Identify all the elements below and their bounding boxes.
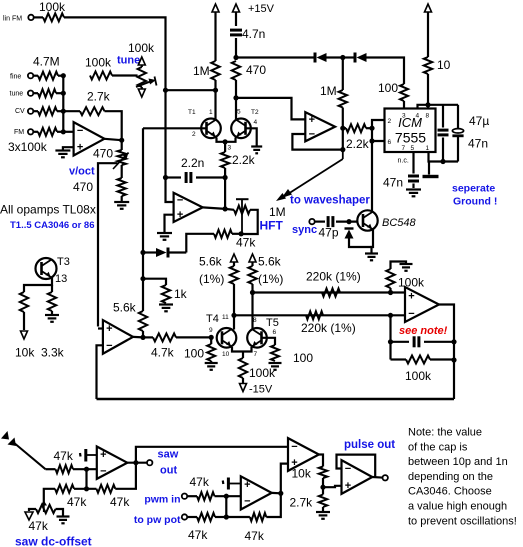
wire 47k row right — [232, 233, 241, 235]
resistor 2.2k emitter — [221, 152, 229, 168]
wire U7 output — [127, 462, 147, 464]
wire U10 feedback bracket — [337, 455, 376, 478]
wire left rail — [142, 128, 144, 311]
svg-text:10k: 10k — [15, 346, 35, 360]
wire pot wiper tap — [98, 163, 118, 326]
svg-text:100k: 100k — [249, 366, 276, 380]
svg-text:FM: FM — [14, 129, 24, 136]
terminal sync — [309, 219, 314, 224]
wire 47k row left — [186, 234, 214, 253]
wire U3 output to 2.2k — [343, 127, 346, 129]
wire pot right lead — [56, 509, 64, 516]
wire pwm in — [187, 495, 197, 497]
node U5 - input — [388, 313, 393, 318]
wire pot to lower 470 — [121, 165, 123, 178]
wire 1M to node — [214, 80, 216, 90]
op-amp U9 pulse comparator — [288, 438, 319, 471]
ground at BC548 emitter — [365, 254, 378, 261]
arrow -15 dc pot — [25, 512, 33, 520]
node summing junction FM — [61, 129, 66, 134]
terminal saw out — [147, 460, 152, 465]
svg-text:+: + — [100, 449, 106, 461]
wire 47n bypass bottom — [442, 138, 444, 162]
resistor 100k to tune pot — [90, 72, 112, 80]
terminal pw pot — [182, 514, 187, 519]
capacitor 4.7n — [230, 30, 242, 35]
wire node down to BC548 collector — [371, 141, 373, 211]
node U4 output — [140, 335, 145, 340]
svg-text:4: 4 — [254, 119, 258, 126]
svg-text:All opamps TL08x: All opamps TL08x — [0, 203, 96, 217]
resistor 220k 1% row1 — [322, 289, 340, 297]
svg-text:100k: 100k — [405, 369, 432, 383]
svg-text:v/oct: v/oct — [69, 166, 95, 178]
wire 4.7n to node — [235, 38, 237, 58]
svg-text:100k: 100k — [85, 56, 112, 70]
wire diode row segment 2 — [327, 56, 343, 58]
svg-text:−: − — [100, 465, 106, 477]
node pin 6 junction — [369, 138, 374, 143]
svg-text:+: + — [77, 142, 83, 154]
transistor T2 — [231, 119, 251, 139]
transistor T5 — [247, 328, 267, 348]
svg-text:8: 8 — [426, 113, 430, 120]
wire diode row segment 1 — [236, 56, 315, 58]
svg-text:+: + — [177, 209, 183, 221]
resistor 2.7k feedback — [80, 107, 105, 115]
pot wiper arrow dc-offset — [41, 501, 48, 513]
svg-text:100k: 100k — [398, 276, 425, 290]
svg-text:4.7n: 4.7n — [242, 27, 265, 41]
svg-text:2.2n: 2.2n — [181, 156, 204, 170]
wire 220k row2 — [234, 314, 405, 316]
resistor 5.6k 1% left — [230, 266, 238, 284]
node diode row left — [233, 55, 238, 60]
wire U5 output — [439, 305, 454, 400]
node divider — [320, 485, 325, 490]
wire tune to rail — [56, 92, 63, 94]
node waveshaper tap — [340, 147, 345, 152]
resistor 47k saw input — [56, 465, 74, 473]
node summing junction tune — [61, 91, 66, 96]
svg-text:1M: 1M — [320, 84, 337, 98]
svg-text:BC548: BC548 — [382, 217, 417, 229]
ground dc pot — [57, 517, 70, 524]
resistor 1M collector T1 — [211, 61, 219, 80]
svg-text:fine: fine — [10, 74, 21, 81]
wire T2 base to ground — [246, 128, 257, 145]
wire 4.7k to T4 base node — [176, 336, 211, 338]
resistor 47k saw feedback left — [55, 485, 74, 493]
svg-text:-15V: -15V — [249, 384, 273, 396]
wire U8 output — [272, 492, 281, 495]
svg-text:+: + — [408, 290, 414, 302]
arrow +15 rail B — [233, 4, 240, 12]
svg-text:4: 4 — [416, 113, 420, 120]
svg-text:47n: 47n — [383, 176, 403, 190]
wire 5.6k left to T4 collector — [233, 284, 235, 330]
svg-text:4.7M: 4.7M — [33, 55, 60, 69]
ground below divider — [316, 512, 330, 519]
svg-text:CA3046. Choose: CA3046. Choose — [408, 486, 492, 498]
ground below 1k — [159, 305, 173, 312]
wire U4 + input — [98, 327, 103, 329]
resistor R 100k lin FM — [43, 13, 64, 21]
svg-text:see note!: see note! — [399, 325, 448, 337]
svg-text:47k: 47k — [245, 529, 265, 543]
svg-text:T1: T1 — [188, 109, 196, 116]
svg-text:47k: 47k — [110, 495, 130, 509]
resistor 100k emitters — [239, 358, 247, 378]
svg-text:47k: 47k — [54, 449, 74, 463]
op-amp U3 buffer — [305, 112, 335, 141]
wire pin 1 down — [427, 152, 430, 162]
wire U8 output to comparator + — [281, 464, 288, 494]
ground below 100 T4 — [205, 363, 218, 370]
node 3 shared emitters — [223, 139, 228, 144]
node U5 + input — [388, 290, 393, 295]
wire arrow to 1M — [214, 12, 216, 61]
wire pin 5 down — [412, 152, 414, 174]
capacitor 2.2n — [186, 172, 191, 183]
svg-text:47µ: 47µ — [469, 114, 489, 128]
wire BC548 emitter to ground — [372, 230, 374, 253]
wire node to 1M bottom — [166, 89, 216, 91]
wire 47n pin5 to ground — [412, 184, 414, 189]
arrow +15 tune pot top — [138, 57, 145, 65]
resistor 100k FM input — [38, 128, 57, 136]
node T5 collector — [250, 290, 255, 295]
resistor 3.3k — [48, 292, 56, 311]
svg-text:8: 8 — [253, 317, 257, 324]
svg-text:1: 1 — [209, 109, 213, 116]
svg-text:6: 6 — [388, 139, 392, 146]
wire 47k to saw - node — [73, 468, 97, 470]
wire 2.7k to ground — [322, 507, 324, 511]
node between diodes / 1M top — [340, 55, 345, 60]
arrow top 5.6k right — [249, 254, 256, 262]
node 2.2n left — [163, 175, 168, 180]
svg-text:10k: 10k — [292, 467, 312, 481]
svg-text:5.6k: 5.6k — [113, 301, 137, 315]
node U3 output — [340, 126, 345, 131]
resistor 100 to pin 3 — [400, 84, 408, 101]
svg-text:470: 470 — [246, 63, 266, 77]
wire U4 output node — [133, 336, 143, 339]
svg-text:100: 100 — [184, 347, 204, 361]
svg-text:5.6k: 5.6k — [258, 255, 282, 269]
resistor 100k tune input — [38, 89, 56, 97]
node feedback cap right — [451, 339, 456, 344]
capacitor 47u electrolytic — [452, 129, 463, 136]
transistor T1 — [201, 119, 221, 139]
resistor 470 collector T2 — [232, 61, 240, 80]
wire summing rail — [62, 76, 64, 132]
svg-text:3.3k: 3.3k — [41, 346, 65, 360]
node summing junction fine — [61, 73, 66, 78]
svg-text:6: 6 — [273, 329, 277, 336]
wire T1 base — [143, 127, 207, 129]
terminal pwm in — [182, 494, 187, 499]
pot wiper arrow tune — [136, 77, 157, 88]
svg-text:10: 10 — [437, 58, 451, 72]
ground below 100 T5 — [269, 363, 282, 370]
IC U6 ICM 7555 body — [385, 109, 436, 153]
node T2 collector — [233, 95, 238, 100]
svg-text:out: out — [160, 465, 177, 477]
svg-text:Note: the value: Note: the value — [408, 427, 482, 439]
svg-text:5.6k: 5.6k — [199, 255, 223, 269]
wire 5.6k to comparator output — [142, 331, 144, 337]
wire T1 emitter to node 3 — [217, 138, 226, 142]
wire T5 base — [262, 338, 276, 345]
arrow +15 rail A — [212, 4, 219, 12]
wire tune — [33, 92, 38, 94]
node 2.2n right — [223, 175, 228, 180]
svg-text:of the cap is: of the cap is — [408, 441, 468, 453]
wire pwm fb to output — [266, 493, 281, 517]
wire node to pin 6 — [372, 128, 385, 141]
svg-text:+15V: +15V — [248, 3, 275, 15]
svg-text:lin FM: lin FM — [3, 16, 22, 23]
ground at 100k pullup — [400, 264, 413, 271]
resistor 100 T5 base — [271, 345, 279, 361]
svg-text:CV: CV — [15, 108, 25, 115]
op-amp U1 v/oct summer — [74, 122, 105, 155]
wire arrow to 5.6k left — [233, 262, 235, 266]
wire pw pot — [187, 516, 197, 518]
wire to separate ground bar — [428, 162, 430, 175]
wire emitters to 100k — [242, 352, 244, 359]
wire FM to rail — [57, 131, 63, 133]
ground at U1 + input — [55, 151, 70, 158]
svg-text:4.7k: 4.7k — [151, 346, 175, 360]
wire 2.2n left segment — [166, 176, 182, 178]
wire CV to rail — [57, 110, 63, 112]
svg-text:between 10p and 1n: between 10p and 1n — [408, 456, 508, 468]
wire node to HFT pot — [225, 208, 234, 211]
op-amp U4 comparator — [103, 320, 133, 354]
svg-text:1M: 1M — [193, 64, 210, 78]
svg-text:tune: tune — [10, 91, 24, 98]
wire clamp diode down — [349, 239, 372, 248]
resistor 10k — [20, 292, 28, 312]
wire fb row mid — [74, 488, 96, 490]
svg-text:47k: 47k — [190, 475, 210, 489]
node feedback cap left — [388, 339, 393, 344]
svg-text:13: 13 — [55, 273, 67, 285]
wire U9 output to divider — [319, 455, 323, 467]
node 1M bottom / T1 collector — [213, 88, 218, 93]
wire divider to U10 + — [323, 486, 342, 487]
svg-text:47k: 47k — [236, 236, 256, 250]
wire sync to cap — [315, 221, 325, 223]
wire 10 to pin8 node — [427, 74, 429, 105]
capacitor comp saw + — [80, 449, 97, 462]
svg-text:100: 100 — [378, 81, 398, 95]
svg-text:1k: 1k — [174, 287, 188, 301]
op-amp U7 saw buffer — [97, 447, 128, 479]
capacitor 47n bypass — [438, 130, 449, 135]
op-amp U5 schmitt — [405, 287, 439, 322]
wire output node to pot — [121, 140, 123, 150]
resistor 5.6k 1% right — [248, 266, 256, 284]
wire 2.2k to pin node — [366, 127, 372, 129]
wire fine — [33, 75, 38, 77]
transistor T4 — [217, 328, 237, 348]
node T4 base — [209, 335, 214, 340]
wire HFT pot right side loop — [241, 210, 258, 234]
wire FM — [33, 131, 38, 133]
resistor 470 lower — [118, 178, 126, 196]
svg-text:2.2k: 2.2k — [232, 153, 256, 167]
svg-text:470: 470 — [73, 180, 93, 194]
transistor T3 — [36, 258, 57, 279]
ground at T2 base — [251, 147, 262, 154]
wire T3 emitter — [24, 278, 52, 293]
transistor Q1 BC548 — [357, 210, 377, 230]
svg-text:100k: 100k — [39, 0, 66, 14]
capacitor 47n pin5 — [408, 176, 419, 181]
wire diode row to 100 resistor — [367, 58, 405, 85]
ground below 3.3k — [45, 315, 59, 322]
svg-text:T3: T3 — [57, 256, 70, 268]
terminal lin FM — [28, 15, 33, 20]
svg-text:−: − — [291, 441, 297, 453]
wire pwm to node — [215, 495, 241, 497]
svg-text:(1%): (1%) — [258, 272, 283, 286]
wire 2.2k to cap node — [224, 168, 226, 178]
wire T3 emitter right leg — [51, 285, 53, 292]
wire arrow to 5.6k right — [251, 262, 253, 266]
arrow +15 rail C — [425, 4, 432, 12]
wire rail to opamp U1 inverting input — [63, 131, 73, 133]
svg-text:3: 3 — [402, 113, 406, 120]
wire 2.7k to output node — [105, 111, 122, 140]
resistor 1M to comparator — [339, 90, 347, 108]
wire saw feedback down — [85, 469, 87, 489]
wire pot left lead — [29, 509, 36, 511]
svg-text:100: 100 — [293, 351, 313, 365]
svg-text:5: 5 — [411, 145, 415, 152]
svg-text:3: 3 — [228, 145, 232, 152]
svg-text:seperate: seperate — [452, 183, 495, 195]
node T4 collector — [231, 313, 236, 318]
op-amp U2 integrator — [174, 193, 203, 222]
resistor 100k feedback — [406, 356, 430, 364]
terminal FM — [28, 129, 33, 134]
svg-text:2.7k: 2.7k — [290, 496, 314, 510]
svg-text:to pw pot: to pw pot — [134, 514, 181, 526]
svg-text:7: 7 — [402, 145, 406, 152]
node summing junction CV — [61, 109, 66, 114]
svg-text:−: − — [244, 496, 250, 508]
resistor 47k pwm in — [197, 492, 215, 500]
svg-text:10: 10 — [222, 351, 230, 358]
resistor 47k saw feedback right — [96, 485, 115, 493]
diode D1 — [315, 53, 327, 63]
wire tune pot bottom — [141, 87, 143, 89]
wire saw bus up — [136, 447, 288, 463]
node BC548 base — [346, 219, 351, 224]
resistor 10 — [424, 57, 432, 74]
diode D2 — [355, 53, 367, 63]
svg-text:220k (1%): 220k (1%) — [301, 321, 356, 335]
diode D3 — [156, 248, 168, 258]
wire U1 output — [104, 139, 121, 140]
svg-text:+: + — [345, 480, 351, 492]
svg-text:7555: 7555 — [395, 130, 426, 146]
node HFT wiper / 47k — [239, 231, 244, 236]
wire CV — [33, 110, 38, 112]
wire T4 emitter join — [232, 347, 243, 352]
svg-text:47k: 47k — [188, 528, 208, 542]
wire feedback cap left seg — [391, 341, 410, 343]
wire divider mid — [322, 478, 324, 495]
wire 5.6k right to T5 collector — [251, 284, 253, 330]
resistor 100 T4 base — [207, 344, 215, 361]
resistor 47k HFT — [214, 230, 232, 238]
wire pin 8 stub — [427, 105, 429, 109]
wire 2.2n right segment — [196, 176, 225, 178]
potentiometer 100k tune — [138, 67, 146, 87]
svg-text:tune: tune — [117, 55, 140, 67]
wire U3 - feedback loop — [292, 128, 342, 149]
wire T2 node to U3 + input — [236, 98, 305, 120]
svg-text:2: 2 — [388, 118, 392, 125]
wire T5 emitter join — [243, 347, 252, 352]
svg-text:pwm in: pwm in — [144, 494, 180, 506]
wire T2 emitter to node 3 — [225, 138, 235, 142]
wire 100k pullup to ground — [391, 262, 407, 270]
svg-text:−: − — [177, 195, 183, 207]
svg-text:47p: 47p — [319, 226, 339, 240]
resistor 4.7M fine — [38, 72, 58, 80]
wire node to T1 collector — [214, 90, 216, 119]
svg-text:7: 7 — [254, 351, 258, 358]
node U2 output HFT — [223, 206, 228, 211]
pot wiper arrow 470 — [113, 153, 129, 170]
wire pw pot to node — [215, 516, 226, 518]
arrow -15V — [240, 384, 247, 392]
wire 470 to ground — [121, 196, 123, 201]
node U8 output — [278, 491, 283, 496]
svg-text:HFT: HFT — [260, 219, 284, 233]
wire diode D3 right — [168, 251, 186, 253]
wire 1M to output node — [342, 108, 344, 129]
wire lin FM to rail — [64, 17, 166, 90]
ground below 470 — [114, 202, 129, 209]
wire feedback res left seg — [391, 358, 407, 360]
terminal fine — [28, 73, 33, 78]
svg-text:11: 11 — [222, 314, 229, 321]
ground below pin5 cap — [406, 190, 421, 197]
wire U4 - input down to rail — [97, 345, 103, 399]
svg-text:saw: saw — [158, 449, 179, 461]
diode base clamp — [345, 229, 354, 239]
svg-text:depending on the: depending on the — [408, 471, 493, 483]
wire tune pot top — [141, 65, 143, 68]
wire bottom feedback rail — [97, 398, 455, 401]
svg-text:−: − — [77, 125, 83, 137]
node rail diode — [140, 250, 145, 255]
wire pin 4 8 bracket — [418, 105, 459, 109]
svg-text:to prevent oscillations!: to prevent oscillations! — [408, 515, 517, 527]
arrow -15 tune pot bottom — [138, 89, 145, 97]
svg-text:T4: T4 — [206, 313, 219, 325]
svg-text:2: 2 — [192, 131, 196, 138]
wire 47u bottom — [457, 137, 459, 162]
